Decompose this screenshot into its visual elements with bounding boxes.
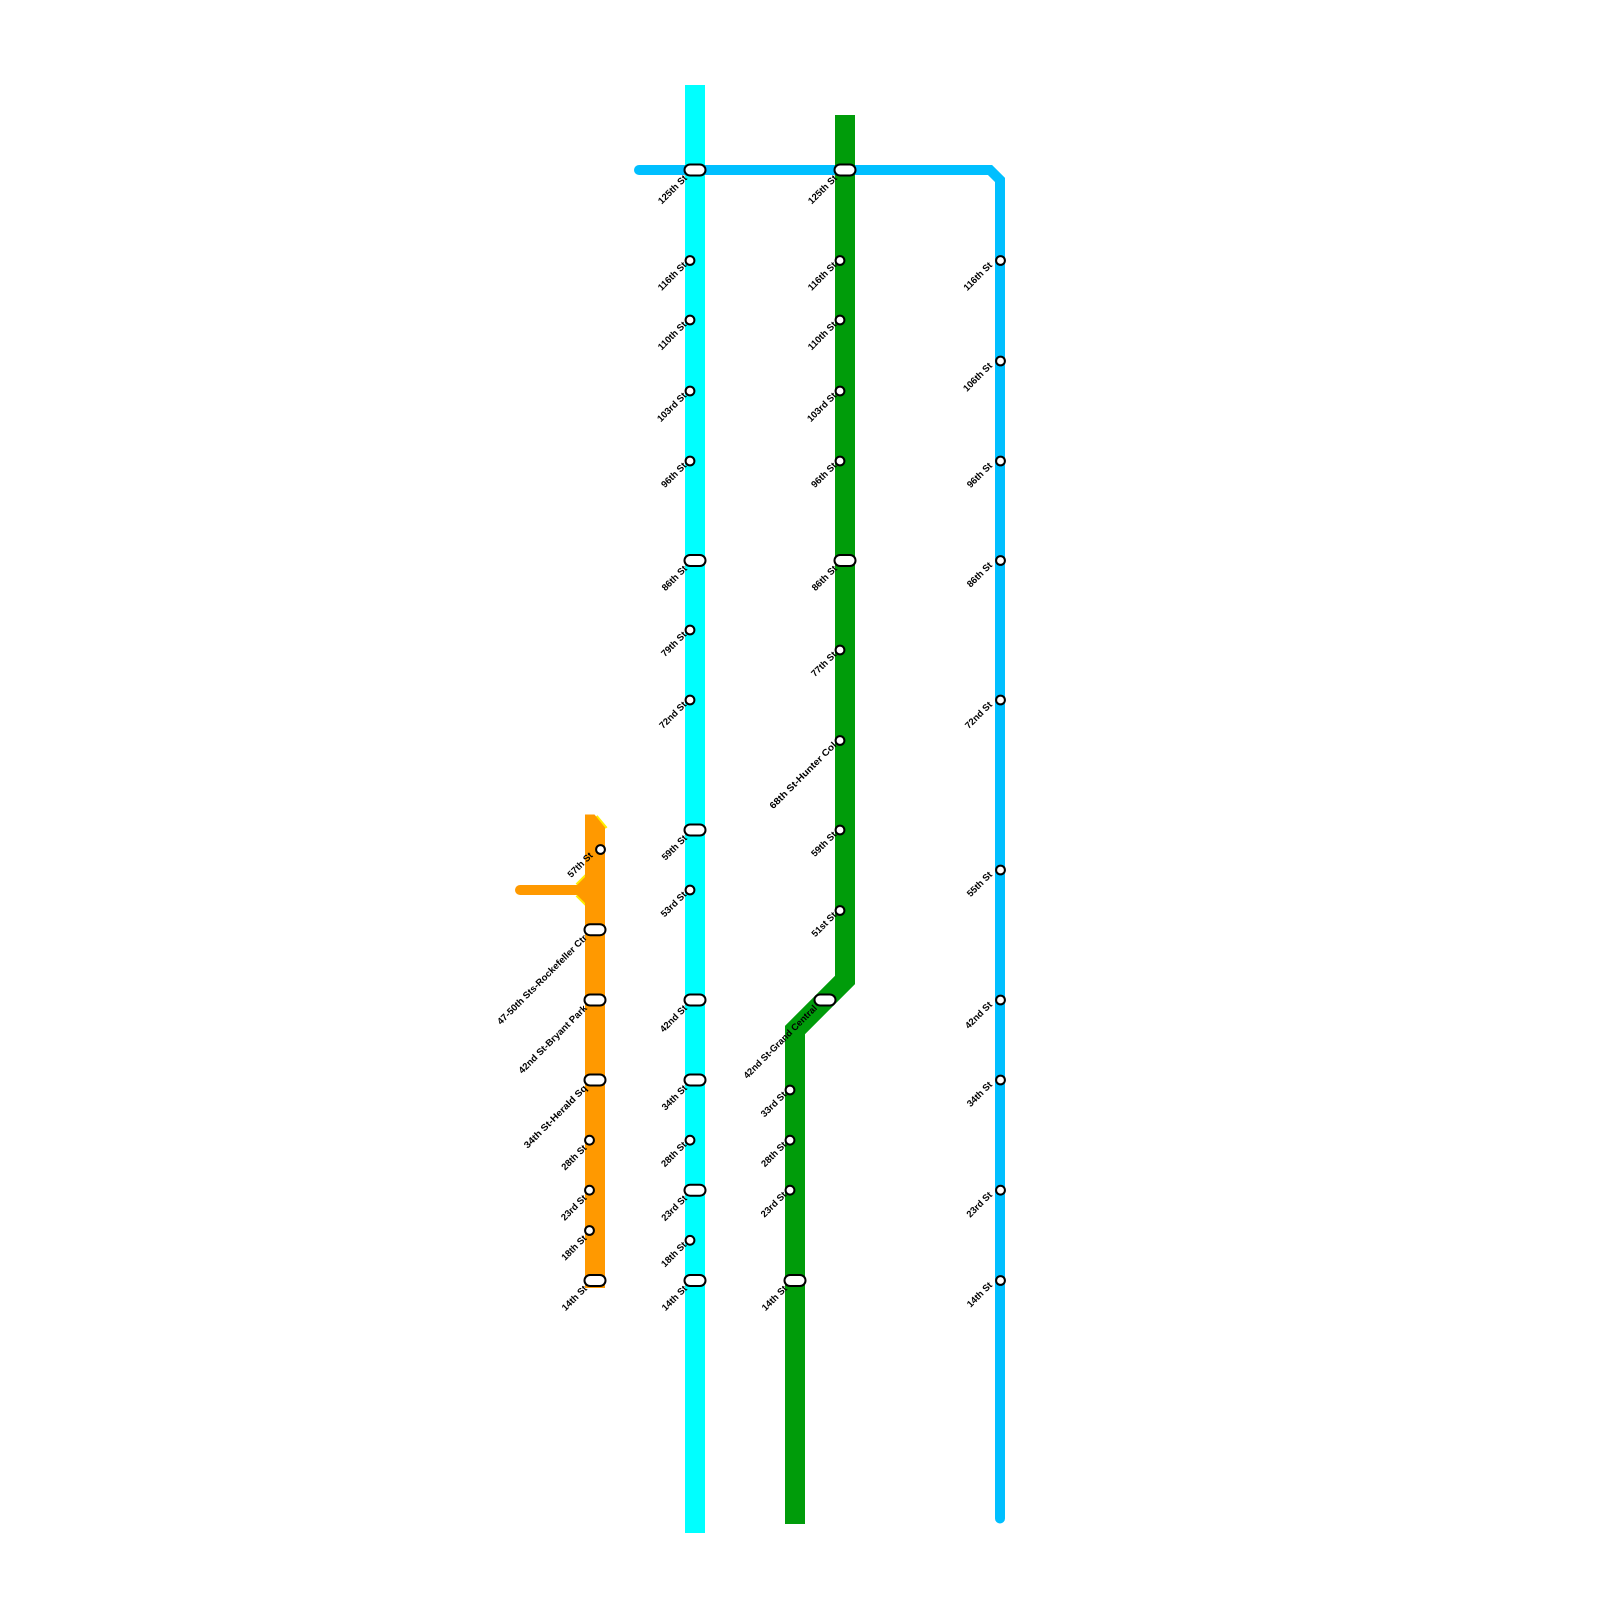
station 96th St (green) bbox=[809, 457, 845, 490]
station 110th St (cyan) bbox=[655, 316, 694, 352]
station 116th St (cyan) bbox=[655, 256, 694, 292]
station 28th St (orange) bbox=[559, 1136, 594, 1172]
station 68th St-Hunter Col (green) bbox=[767, 736, 844, 811]
station 116th St (lightblue) bbox=[961, 256, 1005, 293]
station 42nd St-Bryant Park (orange) bbox=[516, 995, 606, 1076]
station 96th St (cyan) bbox=[659, 457, 695, 490]
station 34th St (lightblue) bbox=[964, 1076, 1005, 1109]
station 42nd St-Grand Central (green) bbox=[741, 995, 836, 1081]
line: 6th Ave branch (orange) bbox=[520, 885, 577, 895]
station 72nd St (lightblue) bbox=[962, 696, 1005, 731]
station 86th St (cyan) bbox=[659, 555, 705, 593]
station 18th St (orange) bbox=[559, 1226, 594, 1262]
station 106th St (lightblue) bbox=[961, 357, 1005, 394]
station 34th St (cyan) bbox=[659, 1075, 705, 1113]
station 116th St (green) bbox=[805, 256, 844, 292]
station 28th St (cyan) bbox=[659, 1136, 695, 1169]
station 34th St-Herald Sq (orange) bbox=[521, 1075, 605, 1151]
station 14th St (green) bbox=[759, 1275, 805, 1313]
station 55th St (lightblue) bbox=[964, 866, 1005, 899]
station 72nd St (cyan) bbox=[657, 696, 695, 731]
station 42nd St (lightblue) bbox=[962, 996, 1005, 1031]
station 14th St (cyan) bbox=[659, 1275, 705, 1313]
station 86th St (lightblue) bbox=[964, 556, 1005, 589]
station 42nd St (cyan) bbox=[657, 995, 705, 1035]
line: crosstown + 2nd Ave (light blue) bbox=[639, 170, 1000, 1519]
station 18th St (cyan) bbox=[659, 1236, 695, 1269]
station 28th St (green) bbox=[759, 1136, 795, 1169]
line: yellow line under 6th Ave (branch taper slivers) bbox=[577, 875, 587, 885]
station 53rd St (cyan) bbox=[658, 886, 694, 919]
line: 7th Ave local (cyan) bbox=[685, 85, 705, 1533]
station 23rd St (cyan) bbox=[659, 1185, 706, 1223]
line: Lexington Ave (green) bbox=[795, 115, 845, 1524]
station 33rd St (green) bbox=[758, 1086, 794, 1119]
station 47-50th Sts-Rockefeller Ctr (orange) bbox=[495, 924, 606, 1026]
station 125th St (green) bbox=[805, 165, 855, 207]
station 125th St (cyan) bbox=[655, 165, 705, 207]
line: 6th Ave trunk (orange) bbox=[585, 815, 605, 1289]
station 59th St (green) bbox=[809, 826, 845, 859]
station 59th St (cyan) bbox=[659, 825, 705, 863]
station 14th St (lightblue) bbox=[964, 1276, 1005, 1309]
station 51st St (green) bbox=[809, 906, 845, 939]
line: 6th Ave branch taper (orange) bbox=[577, 877, 586, 904]
station 14th St (orange) bbox=[559, 1275, 605, 1313]
station 103rd St (cyan) bbox=[654, 387, 694, 424]
station 77th St (green) bbox=[809, 646, 845, 679]
station 79th St (cyan) bbox=[659, 626, 695, 659]
station 110th St (green) bbox=[805, 316, 844, 352]
station 57th St (orange) bbox=[565, 845, 605, 879]
line: yellow line under 6th Ave (top bevel sliver) bbox=[597, 816, 607, 828]
station 23rd St (green) bbox=[758, 1186, 794, 1219]
station 86th St (green) bbox=[809, 555, 855, 593]
station 23rd St (orange) bbox=[558, 1186, 594, 1223]
station 96th St (lightblue) bbox=[964, 457, 1005, 490]
station 103rd St (green) bbox=[804, 387, 844, 424]
station 23rd St (lightblue) bbox=[964, 1186, 1005, 1220]
